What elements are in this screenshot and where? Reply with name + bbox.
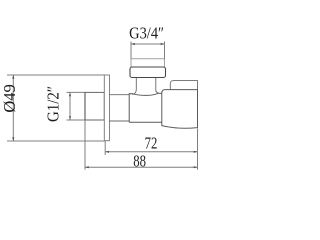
neck cylinder bottom line [110,120,130,122]
Ø49 dimension line [12,75,14,141]
72 dimension line [105,151,197,153]
88 dimension line [85,166,198,168]
svg-text:G1/2″: G1/2″ [45,86,63,122]
G1/2 threaded inlet stub [85,92,104,120]
svg-text:72: 72 [145,135,158,153]
neck cylinder top line [110,94,130,96]
G3/4 dimension arrow left [131,43,135,45]
Ø49 dimension arrow up [12,75,14,79]
G1/2 bottom extension line [67,119,86,121]
valve body bottom line [129,121,162,123]
G3/4 right extension line [164,42,166,60]
72 dimension arrow right [194,151,198,153]
wall flange (Ø49 disc, edge view) [104,75,109,141]
svg-text:88: 88 [133,153,146,171]
G1/2 top extension line [67,91,86,93]
G1/2 dimension line [69,92,71,120]
72 dimension arrow left [105,151,109,153]
compression nut top [131,59,165,67]
Ø49 top extension line [7,74,104,76]
svg-text:Ø49: Ø49 [0,84,19,112]
handle top tab [170,81,197,90]
Ø49 bottom extension line [7,140,105,142]
G1/2 dimension arrow up [69,92,71,96]
spout stub (below nut) [132,78,159,95]
Ø49 dimension arrow down [12,137,14,141]
72 left extension line [104,141,106,155]
inlet stub left edge (darker) [84,92,86,120]
handle knob [162,90,198,129]
right extension line (valve end) [197,129,199,170]
valve body [129,93,162,122]
svg-text:G3/4″: G3/4″ [129,25,164,43]
G3/4 dimension arrow right [161,43,165,45]
88 dimension arrow right [194,166,198,168]
88 left extension line [84,120,86,170]
G3/4 dimension line [131,43,165,45]
nut collar [130,67,166,78]
G1/2 dimension arrow down [69,116,71,120]
G3/4 left extension line [130,42,132,60]
88 dimension arrow left [85,166,89,168]
